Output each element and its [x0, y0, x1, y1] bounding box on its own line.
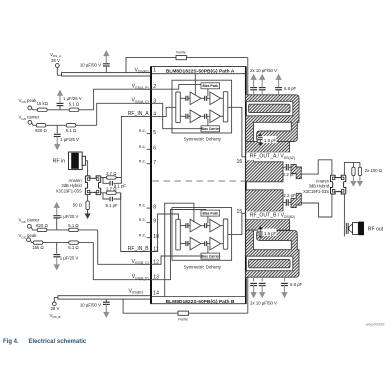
input hybrid coupler symbol — [85, 176, 100, 195]
input matching block A — [176, 92, 181, 123]
capacitor 1uF/25V (peak B) — [53, 243, 78, 271]
wire V_DS_A terminal to rail A — [57, 67, 61, 75]
resistor 820 Ohm (carrier B) — [36, 223, 48, 231]
wide trace rail A (pin 1 V_DS(A1)) — [62, 73, 151, 76]
ground isolation resistor no.2 — [357, 176, 363, 187]
wire input block to carrier stage A — [180, 115, 186, 117]
svg-text:n.c.: n.c. — [139, 203, 146, 208]
wire drain feed B to ferrite — [123, 299, 248, 313]
resistor 5.1 Ohm (carrier A) — [66, 124, 76, 133]
wire output hybrid to isolation resistors — [344, 162, 360, 175]
svg-text:6.8 pF: 6.8 pF — [290, 282, 303, 287]
svg-text:n.c.: n.c. — [139, 144, 146, 149]
wire ferrite A down to microstrip — [247, 58, 249, 96]
resistor 50 Ohm termination — [73, 201, 90, 210]
capacitor 10uF/50V path B — [80, 299, 110, 318]
svg-text:3dB Hybrid: 3dB Hybrid — [61, 183, 82, 188]
microstrip coupled stub A (floating bar) — [249, 104, 290, 112]
svg-text:Bias Carrier: Bias Carrier — [201, 254, 220, 258]
svg-text:15k Ω: 15k Ω — [32, 245, 43, 250]
wire pin 13 to Bias Peak B — [151, 210, 206, 280]
capacitor input peak A — [186, 96, 188, 101]
capacitor interstage carrier B — [201, 241, 210, 246]
svg-text:BLM8D1822S-50PB(G) Path B: BLM8D1822S-50PB(G) Path B — [166, 299, 235, 305]
wire carrier B to pin 12 — [98, 230, 151, 264]
svg-text:Anaren: Anaren — [316, 178, 330, 183]
svg-text:6: 6 — [153, 146, 156, 152]
svg-text:820 Ω: 820 Ω — [35, 128, 47, 133]
svg-text:n.c.: n.c. — [139, 158, 146, 163]
wire branch B to pin 11 RF_IN_B — [121, 193, 151, 252]
capacitor interstage peak B — [201, 223, 210, 228]
microstrip coupled stub B (floating bar) — [249, 259, 290, 267]
svg-text:Bias Carrier: Bias Carrier — [201, 127, 220, 131]
capacitor 10uF/50V no.2 (output B) — [259, 277, 266, 298]
label box RF_OUT_A / V_DS(A2) — [246, 152, 302, 160]
svg-text:Bias Peak: Bias Peak — [203, 84, 219, 88]
resistor 5.1 Ohm (peak B) — [68, 241, 78, 250]
wire peak A to pin 2 — [94, 89, 151, 110]
svg-text:2.7 Ω: 2.7 Ω — [106, 186, 116, 191]
svg-text:Anaren: Anaren — [68, 178, 82, 183]
wire V_DS_B terminal to rail B — [54, 297, 58, 302]
microstrip matching section B (wide band below RF_OUT_B label) — [246, 219, 290, 230]
microstrip output pad A (stepped block) — [291, 164, 301, 178]
wire path B to output hybrid — [301, 194, 332, 217]
svg-text:2.7 Ω: 2.7 Ω — [106, 171, 116, 176]
svg-text:9: 9 — [153, 219, 156, 225]
wire input block to peak stage A — [180, 97, 186, 99]
pin 8 n.c. — [139, 203, 151, 208]
wire path A to output hybrid — [301, 160, 332, 175]
svg-text:n.c.: n.c. — [139, 232, 146, 237]
wire ferrite B up to microstrip — [247, 275, 249, 313]
capacitor 1uF/25V (carrier A) — [54, 125, 79, 150]
svg-text:6.8 pF: 6.8 pF — [284, 86, 297, 91]
svg-text:BLM8D1822S-50PB(G) Path A: BLM8D1822S-50PB(G) Path A — [166, 68, 235, 74]
svg-text:5.1 Ω: 5.1 Ω — [69, 101, 79, 106]
figure caption — [3, 339, 87, 345]
svg-text:14: 14 — [153, 290, 159, 296]
wire input block to peak stage B — [180, 225, 186, 227]
wire peak B row — [30, 240, 93, 242]
capacitor 9.1 pF (branch B) parallel loop — [103, 193, 121, 208]
resistor 100 Ohm no.2 — [358, 162, 361, 175]
resistor 15k Ohm (peak B) — [32, 241, 43, 250]
terminal V_GS carrier (A) — [19, 115, 40, 125]
capacitor 10uF/50V path A — [80, 50, 110, 73]
wire input block to carrier stage B — [180, 243, 186, 245]
svg-text:X3C19F1-03S: X3C19F1-03S — [303, 189, 329, 194]
capacitor 6.8 pF (output B) — [281, 277, 302, 298]
svg-text:10 µF/50 V: 10 µF/50 V — [80, 63, 101, 68]
wire output A to pin 16 — [228, 107, 252, 157]
wire carrier B row — [31, 227, 98, 230]
capacitor 9.1 pF (branch A) parallel loop — [103, 178, 126, 189]
amplifier peak stage1 A — [188, 92, 201, 105]
wire carrier A row — [32, 123, 97, 125]
svg-text:50 Ω: 50 Ω — [73, 203, 82, 208]
svg-text:2.2 pF: 2.2 pF — [283, 172, 296, 177]
capacitor 10uF/50V no.2 (output A) — [259, 74, 266, 95]
ground input termination — [85, 210, 91, 219]
wire RF in to hybrid input port — [87, 161, 89, 176]
ferrite bead B — [178, 311, 188, 321]
svg-text:16: 16 — [237, 159, 243, 165]
svg-text:28 V: 28 V — [51, 58, 60, 63]
svg-text:1 µF/25 V: 1 µF/25 V — [60, 214, 79, 219]
wire output hybrid to RF out — [343, 194, 345, 236]
capacitor input carrier A — [186, 114, 188, 119]
output hybrid coupler symbol — [331, 175, 346, 194]
amplifier peak stage1 B — [188, 219, 201, 232]
capacitor input peak B — [186, 223, 188, 228]
microstrip line network B (drain feed serpentine, column, output block) — [246, 190, 300, 277]
pin 7 n.c. — [139, 158, 151, 163]
svg-text:10 µF/50 V: 10 µF/50 V — [80, 303, 101, 308]
amplifier peak stage2 A — [210, 92, 223, 105]
resistor 5.1 Ohm (carrier B) — [68, 223, 78, 231]
output matching block B — [223, 219, 228, 249]
wire output B to pin 15 — [228, 213, 252, 234]
output matching block A — [223, 92, 228, 122]
resistor 820 Ohm (carrier A) — [35, 124, 47, 133]
ground isolation resistor no.1 — [350, 176, 356, 187]
label Anaren 3dB Hybrid X3C19F1-03S (output) — [303, 178, 330, 194]
wire pin 1 drain feed into cell A — [194, 74, 196, 95]
svg-text:Symmetric Doherty: Symmetric Doherty — [184, 264, 222, 269]
dashed divider between paths — [153, 180, 246, 182]
wire pin 12 to Bias Carrier B — [151, 256, 201, 264]
Bias Carrier box A — [201, 119, 220, 132]
svg-text:5.1 Ω: 5.1 Ω — [66, 128, 76, 133]
svg-text:1 µF/25 V: 1 µF/25 V — [60, 255, 79, 260]
amplifier peak stage2 B — [210, 219, 223, 232]
wide trace rail B (pin 14 V_DS(B1)) — [58, 296, 151, 299]
terminal V_GS carrier (B) — [19, 218, 40, 229]
microstrip line network A (drain feed serpentine, column, output block) — [246, 95, 300, 182]
wire peak A row — [32, 109, 94, 110]
svg-text:RF out: RF out — [368, 226, 384, 232]
wire branch A to pin 4 RF_IN_A — [121, 116, 150, 177]
wire drain feed A to ferrite — [126, 58, 248, 73]
svg-text:RF_IN_B: RF_IN_B — [128, 246, 150, 252]
connector RF in — [53, 152, 88, 170]
wire pin 11 to input match B — [151, 214, 179, 252]
inner box Symmetric Doherty A — [172, 80, 232, 133]
capacitor 1uF/25V (peak A) — [57, 90, 82, 110]
capacitor input carrier B — [186, 241, 188, 246]
Bias Carrier box B — [201, 246, 220, 259]
svg-text:3dB Hybrid: 3dB Hybrid — [309, 184, 330, 189]
label Anaren 3dB Hybrid X3C19F1-03S (input) — [56, 178, 83, 194]
svg-text:n.c.: n.c. — [139, 217, 146, 222]
amplifier carrier stage1 A — [188, 110, 201, 123]
svg-text:10: 10 — [153, 234, 159, 240]
pin 9 n.c. — [139, 217, 151, 222]
svg-text:15 kΩ: 15 kΩ — [37, 101, 48, 106]
capacitor 1uF/25V (carrier B) — [53, 202, 78, 230]
pin 5 n.c. — [139, 128, 151, 133]
svg-text:Ferrite: Ferrite — [178, 317, 188, 321]
svg-text:RF_IN_A: RF_IN_A — [128, 111, 150, 117]
wire pin 14 drain feed into cell B — [165, 203, 194, 296]
terminal V_DS_B 28 V — [50, 302, 61, 319]
wire carrier A to pin 3 — [97, 103, 151, 125]
wire pin 4 to input match A — [151, 107, 176, 116]
IC package outline BLM8D1822S-50PB(G) — [151, 67, 246, 304]
capacitor 1.5 pF shunt A — [258, 134, 277, 147]
svg-text:n.c.: n.c. — [139, 128, 146, 133]
svg-text:2.2 pF: 2.2 pF — [284, 193, 297, 198]
svg-text:1 µF/25 V: 1 µF/25 V — [60, 137, 79, 142]
amplifier carrier stage2 A — [210, 110, 223, 123]
wire hybrid out2 row — [101, 192, 121, 194]
microstrip matching section A (wide band above RF_OUT_A label) — [246, 142, 290, 153]
wire peak B to pin 13 — [93, 243, 150, 280]
capacitor 10uF/50V no.1 (output B) — [250, 277, 257, 298]
svg-text:Electrical schematic: Electrical schematic — [29, 339, 87, 345]
svg-text:X3C19F1-03S: X3C19F1-03S — [56, 189, 82, 194]
terminal V_DS_A 28 V — [50, 52, 62, 67]
capacitor 6.8 pF (output A) — [275, 74, 296, 95]
resistor 100 Ohm no.1 — [352, 162, 355, 175]
capacitor 2.2 pF series B — [283, 199, 291, 206]
terminal V_GS peak (A) — [19, 98, 38, 110]
svg-text:5: 5 — [153, 130, 156, 136]
capacitor 1.5 pF shunt B — [258, 225, 277, 238]
svg-text:1: 1 — [153, 67, 156, 73]
svg-text:amp00036: amp00036 — [366, 321, 386, 326]
wire pin 3 to Bias Carrier A — [151, 103, 201, 128]
inner box Symmetric Doherty B — [172, 208, 232, 261]
pin 10 n.c. — [139, 232, 151, 237]
resistor 2.7 Ohm (branch A) — [106, 171, 116, 179]
svg-text:1 µF/25 V: 1 µF/25 V — [63, 96, 82, 101]
Bias Peak box A — [201, 83, 220, 96]
input matching block B — [176, 219, 181, 250]
svg-text:RF in: RF in — [53, 159, 66, 165]
svg-text:8: 8 — [153, 204, 156, 210]
svg-text:Fig 4.: Fig 4. — [3, 339, 19, 345]
microstrip output pad B (stepped block) — [291, 193, 301, 207]
capacitor interstage peak A — [201, 96, 210, 101]
terminal V_GS peak (B) — [19, 233, 38, 241]
capacitor interstage carrier A — [201, 114, 210, 119]
wire pin 2 to Bias Peak A — [151, 85, 201, 90]
label box RF_OUT_B / V_DS(B2) — [246, 211, 302, 219]
svg-text:9.1 pF: 9.1 pF — [106, 203, 119, 208]
svg-text:Ferrite: Ferrite — [176, 50, 186, 54]
amplifier carrier stage1 B — [188, 237, 201, 250]
amplifier carrier stage2 B — [210, 237, 223, 250]
svg-text:Symmetric Doherty: Symmetric Doherty — [184, 136, 222, 141]
wire hybrid out1 row — [101, 177, 122, 179]
resistor 2.7 Ohm (branch B) — [106, 186, 116, 194]
svg-text:7: 7 — [153, 160, 156, 166]
wire hybrid isolated port to 50 Ohm — [87, 195, 89, 201]
svg-text:1.5 pF: 1.5 pF — [264, 138, 277, 143]
svg-text:2x 10 µF/50 V: 2x 10 µF/50 V — [250, 301, 277, 306]
svg-text:5.1 Ω: 5.1 Ω — [68, 245, 78, 250]
svg-text:Bias Peak: Bias Peak — [203, 211, 219, 215]
ferrite bead A — [176, 50, 186, 59]
svg-text:5.1 Ω: 5.1 Ω — [68, 223, 78, 228]
svg-text:1.5 pF: 1.5 pF — [264, 231, 277, 236]
resistor 5.1 Ohm (peak A) — [69, 101, 79, 111]
svg-text:2x 100 Ω: 2x 100 Ω — [365, 168, 382, 173]
connector RF out — [346, 222, 383, 236]
svg-text:2x 10 µF/50 V: 2x 10 µF/50 V — [250, 68, 277, 73]
pin 6 n.c. — [139, 144, 151, 149]
Bias Peak box B — [201, 210, 220, 223]
capacitor 2.2 pF series A — [283, 164, 291, 171]
resistor 15 kOhm (peak A) — [37, 101, 48, 112]
svg-text:28 V: 28 V — [51, 306, 60, 311]
capacitor 10uF/50V no.1 (output A) — [250, 74, 257, 95]
svg-text:820 Ω: 820 Ω — [36, 223, 48, 228]
